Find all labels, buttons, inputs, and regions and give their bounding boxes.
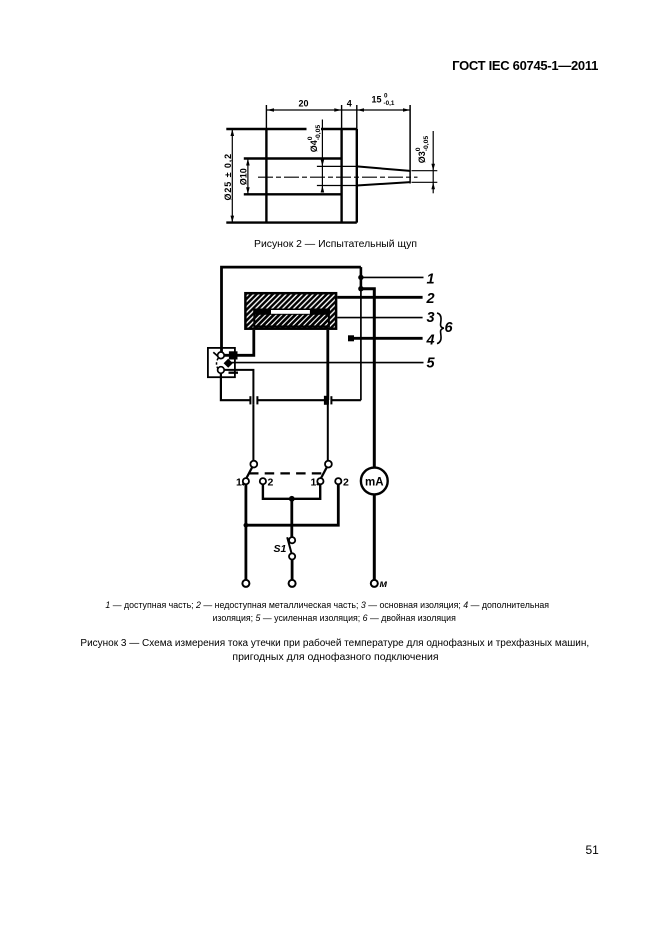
wire top accessible-part frame	[222, 267, 361, 356]
svg-text:15: 15	[372, 95, 382, 105]
wire right vertical down from top wire	[360, 267, 363, 289]
svg-text:1: 1	[427, 272, 435, 288]
svg-text:-0,05: -0,05	[423, 136, 430, 152]
svg-text:1: 1	[236, 477, 242, 489]
metal part black band	[253, 309, 330, 315]
switch A contact 2 circle	[260, 478, 266, 484]
dia10 top line	[244, 157, 342, 159]
body left face	[265, 129, 267, 223]
mechanical link dashed	[249, 472, 322, 474]
meter mA	[361, 468, 388, 495]
node junction dot meter branch	[358, 286, 363, 291]
wire swap link A2 to B1	[263, 484, 320, 499]
page number	[586, 843, 599, 857]
switch B contact 2 circle	[335, 478, 341, 484]
motor box outer insulation hatched	[245, 293, 336, 329]
motor inner insulation hatched	[254, 310, 329, 327]
switch A blade	[243, 467, 253, 485]
dia25 dimension line	[231, 129, 233, 223]
svg-text:2: 2	[268, 477, 274, 489]
flange right face	[356, 129, 358, 223]
dia4 extension top	[317, 165, 357, 167]
label dia25	[223, 153, 233, 201]
restore leg through left jump	[252, 396, 254, 405]
dia4 dimension vertical	[321, 120, 323, 192]
selector wiper tick	[213, 352, 218, 356]
svg-text:4: 4	[347, 99, 352, 109]
label dia4	[307, 125, 322, 153]
svg-text:Ø25 ± 0,2: Ø25 ± 0,2	[223, 153, 233, 201]
label dia10	[239, 168, 249, 185]
arrow right 20	[334, 108, 341, 112]
taper bottom line	[357, 182, 410, 185]
svg-text:mA: mA	[365, 476, 384, 488]
tip extension top	[412, 170, 438, 172]
svg-text:Ø10: Ø10	[239, 168, 249, 185]
wire S1 to terminal	[291, 560, 294, 581]
jump tick right-right	[330, 396, 332, 404]
node junction S1 tap	[289, 496, 295, 502]
switch S1 top circle	[289, 537, 295, 543]
wire bus below selector	[221, 373, 361, 400]
selector diamond contact 5	[224, 359, 233, 368]
wire 1 lead	[361, 276, 424, 278]
wire lower bus A1 to B2	[246, 484, 338, 525]
svg-text:20: 20	[298, 99, 308, 109]
metal part white slot 2	[271, 310, 310, 314]
wire A1 down to terminal	[244, 484, 247, 580]
tip face / extension	[409, 105, 411, 184]
arrow right 15	[403, 108, 410, 112]
wire 4 lead with square start	[348, 335, 354, 341]
centerline	[258, 176, 418, 178]
node junction lower bus	[244, 523, 249, 528]
svg-text:м: м	[380, 578, 388, 590]
node junction dot wire1	[358, 275, 363, 280]
label dia3	[415, 136, 430, 164]
dia4 extension bottom	[317, 185, 357, 187]
switch B contact 1 circle	[317, 478, 323, 484]
caption figure 3	[4, 638, 661, 649]
terminal middle	[289, 580, 296, 587]
wire meter to terminal	[373, 494, 376, 580]
dia10 dimension	[247, 159, 249, 195]
jump tick right-left	[324, 396, 327, 405]
body top edge	[226, 128, 356, 130]
switch A pivot circle	[250, 461, 257, 468]
svg-text:-0,1: -0,1	[384, 100, 395, 107]
svg-text:S1: S1	[274, 543, 287, 555]
tip extension bottom	[412, 181, 438, 183]
svg-text:Ø3: Ø3	[417, 151, 427, 163]
jump tick left-right	[256, 396, 258, 404]
wire 3 lead	[337, 317, 422, 319]
crossing jump right gap	[325, 396, 332, 405]
header	[452, 58, 598, 73]
selector bottom contact circle	[218, 367, 225, 374]
white break under dia4 label	[307, 127, 322, 132]
switch B pivot circle	[325, 461, 332, 468]
switch B blade	[317, 467, 327, 485]
legend figure 3	[0, 600, 658, 610]
svg-text:5: 5	[427, 356, 436, 372]
selector box	[208, 348, 235, 377]
wire 2 lead	[337, 296, 422, 299]
caption figure 2	[5, 239, 661, 250]
wire square contact to winding leg	[224, 330, 253, 355]
wire 5 lead	[231, 362, 424, 364]
svg-text:0: 0	[415, 147, 422, 151]
svg-text:3: 3	[427, 310, 435, 326]
jump tick left-left	[249, 396, 251, 404]
svg-text:6: 6	[445, 320, 454, 336]
crossing jump left gap	[251, 396, 258, 405]
svg-text:4: 4	[426, 333, 435, 349]
wire S1 drop	[290, 499, 293, 537]
svg-text:1: 1	[311, 477, 317, 489]
dia3 dimension vertical	[432, 131, 434, 193]
svg-text:0: 0	[384, 93, 388, 100]
switch S1 blade	[287, 537, 291, 553]
extension line flange left	[341, 105, 343, 129]
wire branch to meter	[361, 289, 374, 468]
terminal right	[371, 580, 378, 587]
selector stub contact	[229, 372, 239, 374]
arrow left 20	[267, 108, 274, 112]
body bottom edge	[226, 221, 356, 223]
dimension line top	[267, 109, 410, 111]
arrow left 15	[357, 108, 364, 112]
dia10 bottom line	[244, 193, 342, 195]
svg-text:2: 2	[426, 291, 435, 307]
selector wiper dashed arc	[217, 358, 219, 369]
taper top line	[357, 166, 410, 171]
svg-text:0: 0	[307, 136, 314, 140]
switch S1 bottom circle	[289, 553, 295, 559]
svg-text:2: 2	[343, 477, 349, 489]
body right face / flange left	[340, 129, 342, 223]
extension line left face	[265, 105, 267, 129]
extension line flange right	[356, 105, 358, 129]
switch A contact 1 circle	[243, 478, 249, 484]
wire bottom circle to switch leg	[224, 370, 253, 461]
selector top contact circle	[218, 352, 225, 359]
brace 6 for wires 3 and 4	[437, 313, 444, 344]
terminal left	[242, 580, 249, 587]
wire motor right leg	[326, 330, 329, 400]
selector square contact	[229, 351, 238, 359]
svg-text:-0,05: -0,05	[315, 125, 322, 141]
svg-text:Ø4: Ø4	[309, 140, 319, 152]
